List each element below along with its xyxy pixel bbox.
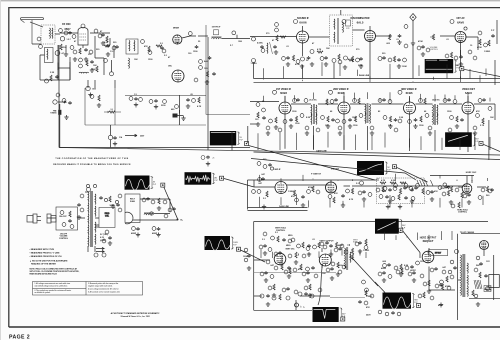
wire if out wire (222, 35, 251, 39)
gnd under 0.25 cap (201, 156, 214, 166)
svg-text:470K: 470K (308, 186, 313, 189)
scan edge shading top (0, 0, 500, 1)
wire vert bottom rail (254, 309, 312, 311)
scope R9 marker (341, 317, 345, 321)
trimmer C1 (55, 51, 60, 56)
svg-text:TUNING: TUNING (50, 113, 57, 115)
svg-text:25.3 MC: 25.3 MC (309, 100, 317, 102)
svg-text:4.7K: 4.7K (317, 48, 322, 51)
vert extra parts 2 (260, 247, 348, 306)
if transformer 3 (432, 99, 440, 125)
svg-text:A PHOTOFACT STANDARD NOTATI: A PHOTOFACT STANDARD NOTATION SCHEMATIC (111, 312, 160, 315)
svg-text:SND IF: SND IF (274, 169, 281, 171)
hold control parts (451, 202, 460, 208)
svg-text:SET AT FULL CLOCKWISE POSITION: SET AT FULL CLOCKWISE POSITION EXCEPT AS… (30, 270, 80, 273)
discriminator transformer coils (334, 18, 351, 44)
svg-text:6AL5: 6AL5 (357, 20, 364, 24)
svg-text:680K: 680K (338, 245, 343, 247)
if3 screen parts (408, 114, 429, 129)
vert deep extra (268, 284, 322, 297)
audio out extra (142, 197, 176, 218)
wire long diagonal from R4 (397, 167, 428, 182)
svg-text:1 MEG: 1 MEG (363, 250, 370, 252)
tube damper V18 (480, 241, 489, 250)
tube oscillator V2b (172, 70, 184, 82)
pin 234 (232, 31, 236, 35)
tube marker 2ND VIDEO IF (329, 90, 333, 94)
svg-text:3RD VIDEO IF: 3RD VIDEO IF (401, 88, 417, 91)
svg-text:▲ NO DOTS USE FOR THE ALTERNAT: ▲ NO DOTS USE FOR THE ALTERNATE (30, 260, 69, 263)
scope R1 connection marker (460, 67, 464, 71)
if2 screen parts (342, 114, 363, 129)
tube sound IF V4 6AU6 (297, 31, 309, 43)
svg-text:(GRN): (GRN) (100, 240, 106, 242)
pin 1 rf (59, 29, 63, 33)
svg-text:RF HOT: RF HOT (435, 253, 441, 255)
wire tuner extra wires 2 (58, 33, 114, 80)
scope R10 marker (417, 304, 421, 308)
wire vert curve to scope (318, 264, 323, 305)
svg-text:MEG: MEG (288, 235, 293, 237)
scope waveform photo R5 vert sync waveform (125, 176, 157, 191)
svg-text:470K: 470K (418, 40, 423, 43)
svg-text:VIDEO DET: VIDEO DET (462, 88, 475, 91)
svg-text:5U4G: 5U4G (130, 200, 135, 203)
wire power wiring (47, 218, 99, 225)
vert output transformer (345, 247, 351, 270)
wire hv right box lines (489, 274, 500, 287)
tube marker 1ST VIDEO IF (273, 90, 277, 94)
tube mixer V2a (173, 35, 182, 44)
wire af wiring (440, 36, 478, 50)
if transformer 2 (365, 103, 370, 123)
wire right tall vertical (488, 120, 490, 160)
svg-text:DASH LINE: DASH LINE (279, 205, 289, 208)
wire horiz ticks (385, 231, 453, 240)
tube marker v5 (342, 20, 346, 24)
trap parts 45mc (440, 183, 450, 190)
sound strip extra 1 (282, 54, 408, 68)
scope R7 marker (237, 247, 241, 251)
rectifier tube V16 (125, 212, 133, 224)
vert hold parts (263, 232, 292, 247)
wire power extra wires (85, 192, 99, 252)
svg-text:FINE: FINE (53, 111, 57, 113)
wire tuner wiring left (32, 34, 60, 80)
svg-text:✈ 6SN7GT: ✈ 6SN7GT (311, 172, 322, 175)
pin marker near coil (39, 45, 43, 49)
extra value labels horiz (366, 261, 490, 309)
af input parts (388, 25, 408, 48)
wire sound b+ bus lower (254, 81, 500, 83)
det load parts (450, 107, 492, 129)
svg-text:6AG5: 6AG5 (465, 91, 473, 95)
scope waveform photo R3 agc waveform (210, 131, 244, 145)
svg-text:47K: 47K (291, 195, 295, 198)
sound takeoff coil (267, 42, 273, 54)
sound if grid parts (272, 23, 286, 55)
scope R2 marker (479, 142, 483, 146)
svg-text:WIDTH: WIDTH (486, 289, 492, 291)
gnd 1500 (88, 93, 92, 97)
svg-text:©Howard W. Sams & Co., Inc. 19: ©Howard W. Sams & Co., Inc. 1951 (120, 315, 150, 318)
filter cap bank 2 (152, 227, 161, 237)
svg-text:NOTE: FIELD COILS CONNECTED WI: NOTE: FIELD COILS CONNECTED WITH CONTROL… (30, 267, 78, 270)
wire b+ bus line B (254, 152, 500, 160)
discriminator output parts (332, 53, 386, 69)
wire heater arrows (96, 247, 104, 252)
wire sync wiring (254, 185, 486, 187)
wire mixer plate wire (182, 36, 208, 38)
hot chassis box (429, 250, 448, 256)
contrast network parts (379, 179, 418, 209)
svg-text:56K: 56K (476, 265, 480, 267)
svg-text:6.3V: 6.3V (100, 237, 105, 239)
svg-text:470K: 470K (438, 304, 443, 307)
svg-text:THE COOPERATION OF THE MANUFAC: THE COOPERATION OF THE MANUFACTURER OF T… (55, 157, 128, 160)
wire vert box left edge (253, 222, 255, 311)
audio output transformer (144, 212, 154, 216)
flyback transformer (461, 254, 469, 297)
left of vert box parts (243, 248, 251, 270)
wire long diagonal from R3 (249, 146, 376, 181)
wire arrow 250v (125, 134, 137, 137)
wire sync top ticks (260, 174, 488, 181)
interlock plug (27, 214, 56, 223)
svg-text:1 MEG: 1 MEG (288, 191, 295, 193)
filter cap bank 1 (131, 227, 140, 237)
vert out extra (260, 267, 342, 282)
sync mid parts (291, 186, 320, 207)
tube discriminator V5 6AL5 (365, 31, 376, 42)
mixer cathode parts (193, 45, 211, 69)
wire vert box ticks (261, 249, 366, 258)
wire if top ticks (264, 92, 491, 101)
horiz row extra (378, 267, 446, 282)
vert out parts (266, 260, 346, 278)
width box (484, 286, 491, 292)
rf input coil box (45, 48, 54, 63)
wire vertical x232 (231, 131, 233, 151)
v6 top cap (464, 27, 467, 30)
hv extra parts (446, 256, 483, 306)
svg-text:SOUND IF: SOUND IF (297, 17, 309, 20)
wire diagonal from R2 (483, 144, 500, 151)
svg-text:1 MEG: 1 MEG (484, 51, 491, 53)
svg-text:DISCRIMINATOR: DISCRIMINATOR (350, 17, 369, 20)
power extra (77, 194, 122, 257)
tuner extra parts 2 (60, 29, 119, 56)
sync input parts (252, 173, 269, 209)
svg-text:MEG: MEG (286, 245, 291, 247)
tuner b+ row parts (129, 94, 202, 111)
wire b+ bus line A (59, 148, 500, 156)
sync row extra (358, 189, 492, 204)
wire sound bus ticks (264, 62, 487, 78)
wire diagonal yoke wire (352, 257, 379, 286)
svg-text:OSC: OSC (168, 66, 173, 68)
sound if input parts (251, 37, 265, 65)
mixer grid components (79, 58, 98, 72)
svg-text:240V: 240V (366, 314, 371, 317)
wire if bus ticks (258, 132, 490, 150)
sync out parts (328, 188, 354, 207)
svg-text:ON-OFF: ON-OFF (59, 216, 67, 218)
tube horiz output V17 6BQ6GT (422, 251, 434, 263)
svg-text:47K: 47K (434, 190, 438, 193)
svg-text:4.5MC: 4.5MC (257, 42, 263, 45)
below R10 parts (378, 310, 401, 316)
svg-text:VERT OSC: VERT OSC (285, 249, 295, 251)
mixer grid pin (188, 32, 192, 36)
scope waveform photo R7 vert osc waveform (205, 236, 239, 250)
wire hv cage top (461, 233, 500, 235)
svg-text:100K: 100K (402, 66, 407, 68)
tube vert osc V14 (274, 253, 286, 265)
trimmer osc (60, 37, 64, 41)
wire strip2 wires (178, 110, 184, 116)
svg-text:2ND VIDEO IF: 2ND VIDEO IF (333, 88, 349, 91)
wire sync box bottom pair A (248, 207, 308, 209)
wire hv cage left (457, 234, 459, 320)
svg-text:6AU6: 6AU6 (299, 20, 307, 24)
ground under tune strip (64, 115, 68, 119)
notes table frame (33, 282, 143, 296)
svg-text:• MEASURED FROM PIN 8 OF V16: • MEASURED FROM PIN 8 OF V16 (30, 255, 63, 258)
svg-text:MIXER: MIXER (173, 28, 180, 30)
svg-text:47K: 47K (366, 306, 370, 309)
wire test point lead (412, 21, 414, 41)
wire tuner interconnect (58, 45, 112, 80)
wire bottom area wire (295, 300, 297, 310)
antenna (21, 18, 44, 44)
svg-text:220K: 220K (358, 65, 363, 67)
svg-text:4-7: 4-7 (62, 52, 65, 55)
svg-text:PAGE 2: PAGE 2 (9, 335, 30, 341)
discriminator transformer dashed box (330, 15, 353, 46)
svg-text:DASH LINE: DASH LINE (359, 74, 370, 77)
extra value labels sync (258, 182, 490, 197)
svg-text:10K: 10K (455, 65, 459, 67)
pin marker near balun (37, 37, 41, 41)
wire horz bottom wiring (420, 250, 484, 290)
wire b+ feed line (133, 219, 178, 221)
if strip extra low (266, 126, 477, 135)
svg-text:HORZ OSC: HORZ OSC (466, 172, 477, 174)
if transformer T2 box (126, 39, 138, 54)
scope R5 marker (161, 183, 165, 187)
svg-text:47K: 47K (298, 268, 302, 271)
wire sound b+ bus upper (254, 78, 500, 80)
svg-text:8.2K: 8.2K (404, 265, 409, 267)
tube sync amp V11b (326, 182, 337, 193)
gnd test point (411, 41, 415, 45)
svg-text:5V (YEL): 5V (YEL) (100, 234, 109, 236)
svg-text:RECEIVER MAKES IT POSSIBLE TO: RECEIVER MAKES IT POSSIBLE TO BRING YOU … (53, 163, 131, 166)
horiz afc parts (376, 184, 424, 204)
svg-text:120K: 120K (458, 187, 463, 189)
gnd gang (113, 142, 117, 146)
peaking coil hatch (417, 180, 433, 186)
rf amp components (70, 46, 93, 62)
wire osc vertical wire (59, 37, 208, 150)
horiz deep extra (418, 280, 451, 300)
wire diagonal to R10 (375, 282, 385, 293)
resistor 10K agc (104, 109, 121, 113)
b+ terminal dot (177, 219, 179, 221)
wire bus tick wires (285, 114, 468, 152)
tube horiz osc V13 (462, 184, 472, 194)
tune strip block (58, 110, 61, 115)
svg-text:3.3K: 3.3K (50, 72, 55, 74)
wire line under vert box (254, 273, 365, 298)
horz drive parts (381, 261, 419, 276)
svg-text:2.7K: 2.7K (480, 125, 485, 127)
svg-text:4.7K: 4.7K (381, 179, 386, 182)
tuner B+ row wire (125, 95, 206, 97)
wire audio top wires (140, 199, 170, 214)
balun coil L1 (49, 28, 52, 38)
balun transformer dashed box (41, 25, 55, 44)
wire sync box bottom pair B (248, 210, 308, 212)
scope waveform photo R6 audio waveform (185, 172, 219, 185)
wire extra scan wires (285, 10, 468, 102)
svg-text:47K: 47K (144, 45, 148, 48)
tube vert output V15 (319, 254, 331, 266)
svg-text:40MF: 40MF (381, 267, 387, 270)
svg-text:6CB6: 6CB6 (280, 91, 287, 95)
wire diagonal from R8 (403, 231, 420, 253)
svg-text:10K: 10K (322, 273, 326, 275)
tube video det V10 6AG5 (462, 102, 474, 114)
svg-text:1500: 1500 (92, 89, 96, 91)
wire sound strip bus wires (250, 30, 392, 56)
svg-text:CONTROL: CONTROL (458, 212, 468, 214)
svg-text:RF OSC: RF OSC (62, 24, 71, 26)
svg-text:COIL: COIL (105, 215, 109, 217)
tube 1st video IF V7 6CB6 (279, 102, 291, 114)
tube 2nd video IF V8 6CB6 (338, 102, 350, 114)
gang tuning pin (108, 135, 112, 139)
svg-text:6AV6: 6AV6 (457, 20, 464, 24)
sound strip extra 2 (417, 45, 477, 67)
svg-text:1ST AF: 1ST AF (456, 17, 465, 20)
1st pix if coil L5 (212, 30, 222, 39)
scope waveform photo R2 if response (445, 132, 479, 147)
contrast pin (360, 181, 364, 185)
wire agc pot arrow (58, 101, 66, 103)
tune strip block 2 (173, 114, 178, 118)
svg-text:10K: 10K (134, 59, 138, 61)
wire agc wire down (60, 104, 250, 148)
scope waveform photo R4 video detector waveform (357, 161, 391, 175)
scope waveform photo R8 horiz osc waveform (375, 219, 406, 234)
wire diagonal from R7 (241, 250, 266, 262)
svg-text:45.0 MC: 45.0 MC (432, 99, 440, 102)
cap 1500 pin (86, 86, 90, 90)
wire vert box top edge (254, 221, 488, 223)
wire sync box ticks (260, 194, 484, 207)
converter components (141, 40, 168, 57)
vert osc parts (297, 242, 338, 256)
svg-text:REAR BOARD ATTACHED FLAT.: REAR BOARD ATTACHED FLAT. (30, 273, 58, 276)
wire if strip wiring (250, 102, 495, 121)
power transformer T10 (88, 191, 96, 247)
bottom mid parts (295, 303, 303, 308)
agc pot (53, 100, 57, 104)
svg-text:READING OF THE METER: READING OF THE METER (30, 262, 57, 265)
wire diagonal from R5 (164, 187, 178, 219)
wire extra tuner wires (40, 57, 115, 88)
vert row extra (259, 238, 362, 255)
scope waveform photo R10 horiz output waveform (383, 293, 419, 310)
svg-text:10K: 10K (490, 117, 494, 119)
af plate parts (477, 30, 495, 49)
svg-text:8.2K: 8.2K (391, 180, 396, 182)
svg-text:6CB6: 6CB6 (406, 91, 413, 95)
wire diagonal from R6 marker (224, 179, 254, 188)
extra value labels row1 (266, 33, 491, 53)
on-off volume box (56, 207, 78, 230)
svg-text:4.7K: 4.7K (349, 198, 354, 201)
snd if section parts (257, 159, 274, 170)
svg-text:CONTROL: CONTROL (59, 238, 69, 240)
svg-text:SND DET: SND DET (331, 168, 340, 170)
svg-text:• MEASURED WITH VTVM: • MEASURED WITH VTVM (30, 248, 55, 251)
if1 screen parts (283, 114, 304, 129)
on-off box parts (59, 211, 74, 229)
svg-text:1.5-7: 1.5-7 (67, 39, 71, 41)
if3 bias parts (383, 116, 402, 129)
wire if agc stub (250, 123, 258, 125)
width coil parts (474, 268, 491, 291)
wire horz osc top wire (430, 176, 474, 184)
wire wire gang (110, 125, 112, 148)
tuner mid parts2 (56, 93, 101, 107)
horiz osc parts (438, 185, 494, 204)
tube marker 3RD VIDEO IF (398, 90, 402, 94)
wire sync row link wires (254, 180, 472, 255)
rf amplifier tube V1 (78, 24, 88, 45)
wire right verticals (495, 20, 497, 85)
svg-text:CONTROL: CONTROL (429, 49, 438, 51)
svg-text:6BQ6GT: 6BQ6GT (423, 239, 434, 243)
vert lower parts (295, 280, 373, 317)
wire sync box left edge (247, 180, 249, 210)
svg-text:8.2K: 8.2K (306, 117, 311, 119)
rf coil L2 (46, 49, 49, 59)
svg-text:10K: 10K (93, 65, 97, 67)
bottom right parts (358, 288, 374, 304)
svg-text:.25: .25 (212, 158, 214, 160)
svg-text:• MEASURED FROM 117 V LINE: • MEASURED FROM 117 V LINE (30, 252, 61, 255)
wire sync box top edge (248, 179, 378, 181)
pin near hot box (455, 250, 459, 254)
if2 bias parts (321, 116, 340, 129)
vert size pot (347, 239, 359, 260)
scope R8 marker (399, 228, 403, 232)
test point diamond (410, 14, 416, 21)
if strip extra (293, 98, 486, 105)
svg-text:1500: 1500 (238, 41, 242, 43)
osc tank components (79, 42, 114, 76)
tube 3rd video IF V9 6CB6 (404, 102, 416, 114)
svg-text:5 PF: 5 PF (346, 28, 350, 30)
damper parts (439, 275, 454, 307)
svg-text:4.7K: 4.7K (197, 105, 202, 108)
gnd strip2 (181, 116, 185, 120)
wire bus vertical ticks (254, 42, 461, 79)
